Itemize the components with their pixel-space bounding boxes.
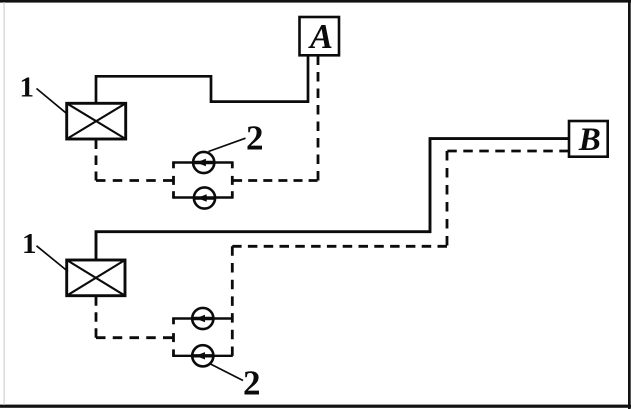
pump 2 (top group, upper)	[193, 152, 214, 173]
svg-text:2: 2	[246, 118, 264, 157]
box B (heat user B)	[569, 121, 608, 157]
wire: dashed return pipe from box B left, down, left, down to bottom pump group	[447, 150, 569, 153]
node: top pump group left dashed header (junction)	[172, 162, 175, 199]
heat exchanger 1 (bottom)	[67, 260, 125, 296]
pump 2 (bottom group, upper)	[192, 308, 213, 329]
border frame top	[0, 0, 631, 3]
svg-text:1: 1	[22, 228, 37, 260]
leader line from label 1 to heat exchanger (top)	[37, 89, 68, 114]
wire: dashed return from heat exchanger 1 (bottom) to bottom pump group	[95, 296, 98, 337]
node: bottom pump group left dashed header (junction)	[172, 318, 175, 357]
svg-text:B: B	[578, 122, 601, 158]
leader line from label 1 to heat exchanger (bottom)	[37, 246, 69, 272]
pump 2 (top group, lower)	[194, 187, 215, 208]
wire: dashed return pipe from box A down then left to top pump group	[317, 56, 320, 181]
wire: bottom pump group lower branch	[172, 355, 233, 357]
wire: solid supply pipe from box B left to heat exchanger 1 (bottom)	[96, 139, 569, 261]
wire: solid supply pipe from heat exchanger 1 (top) to box A	[96, 55, 308, 104]
border frame right	[628, 0, 631, 409]
wire: dashed return from heat exchanger 1 (top) bottom to pump group	[95, 140, 98, 181]
box A (heat user A)	[300, 17, 340, 55]
wire: top pump group upper branch	[172, 161, 233, 163]
pump 2 (bottom group, lower)	[192, 345, 213, 366]
node: top pump group right dashed header (junction)	[231, 162, 234, 199]
wire: bottom pump group upper branch	[172, 317, 233, 319]
svg-text:A: A	[308, 18, 333, 56]
border frame left	[4, 2, 5, 405]
svg-text:1: 1	[20, 72, 35, 104]
leader line from bottom pump to label 2	[210, 364, 244, 381]
svg-text:2: 2	[243, 363, 261, 402]
heat exchanger 1 (top)	[67, 103, 126, 139]
leader line from top pump to label 2	[209, 138, 246, 151]
wire: top pump group lower branch	[172, 196, 233, 198]
border frame bottom	[0, 405, 631, 408]
